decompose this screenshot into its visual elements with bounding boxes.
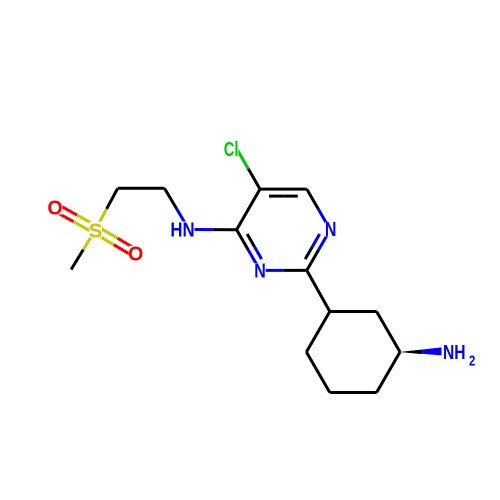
atom S (89, 219, 103, 242)
svg-text:2: 2 (469, 352, 475, 369)
svg-text:Cl: Cl (224, 137, 239, 160)
node NH amine (170, 218, 194, 241)
wire N3=C4 double bond (248, 250, 260, 270)
wire pyrimidine-cyclohexane (307, 270, 330, 311)
svg-text:N: N (325, 217, 337, 240)
wire C6-N1 (307, 189, 319, 209)
svg-text:N: N (254, 258, 266, 281)
wire C2-N3 (283, 269, 306, 272)
wire C5=C6 double bond (260, 188, 307, 191)
wire C4-C5 (237, 189, 260, 230)
wire S=O bottom-right double bond (94, 233, 114, 245)
atom Cl (224, 137, 239, 160)
atom O1 (47, 197, 62, 220)
wire CH2-CH2 (118, 187, 165, 190)
svg-text:O: O (128, 243, 143, 266)
node N1 (325, 217, 337, 240)
svg-text:HN: HN (170, 218, 194, 241)
atom O2 (128, 243, 143, 266)
wire C4-NH (213, 228, 237, 231)
svg-text:S: S (89, 219, 103, 242)
wire S-CH3 (83, 230, 95, 250)
svg-text:O: O (47, 197, 62, 220)
group NH2 (443, 341, 475, 369)
wire Cl-C5 (237, 149, 249, 169)
wire N1=C2 double bond (319, 230, 331, 250)
wire S=O top-left double bond (77, 215, 97, 226)
svg-text:NH: NH (443, 341, 466, 363)
node N3 (254, 258, 266, 281)
label halos (254, 263, 265, 277)
wire NH-CH2 (177, 209, 189, 230)
wire wedge C-NH2 (400, 347, 442, 355)
wire cyclohexane ring (330, 310, 377, 313)
wire CH2-S (107, 188, 118, 209)
